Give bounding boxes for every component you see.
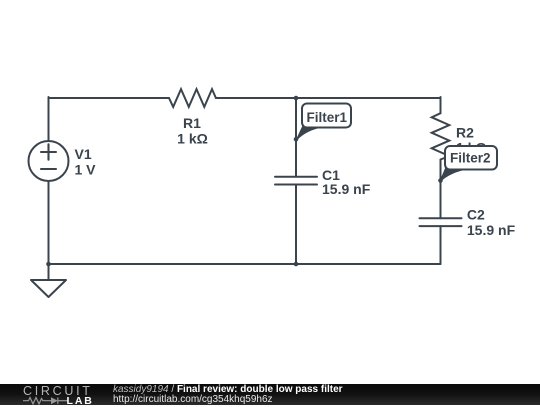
svg-text:15.9 nF: 15.9 nF <box>467 222 516 238</box>
svg-text:Filter2: Filter2 <box>450 151 491 166</box>
svg-text:C2: C2 <box>467 207 485 223</box>
svg-text:1 kΩ: 1 kΩ <box>177 130 208 146</box>
svg-text:R1: R1 <box>183 115 201 131</box>
svg-text:R2: R2 <box>456 125 474 141</box>
svg-text:Filter1: Filter1 <box>307 110 348 125</box>
svg-text:V1: V1 <box>75 146 92 162</box>
svg-text:15.9 nF: 15.9 nF <box>322 181 371 197</box>
svg-text:1 V: 1 V <box>75 161 97 177</box>
